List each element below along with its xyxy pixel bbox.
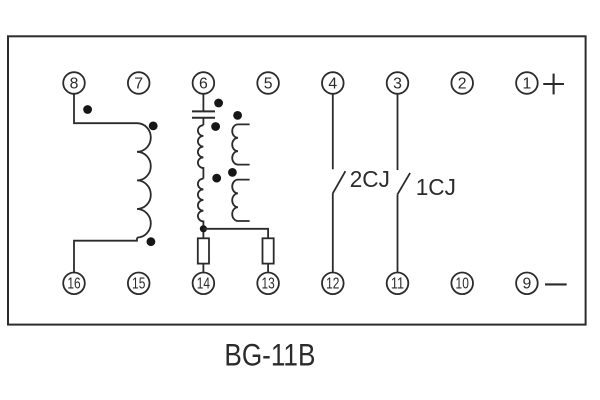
- switch 2CJ lower wire to terminal 12: [332, 193, 334, 272]
- svg-text:1CJ: 1CJ: [416, 174, 456, 200]
- svg-text:4: 4: [328, 75, 337, 92]
- svg-text:2CJ: 2CJ: [350, 166, 390, 192]
- secondary winding lower section with taps: [232, 180, 249, 221]
- svg-text:11: 11: [391, 276, 404, 293]
- secondary winding dot top: [233, 111, 242, 120]
- terminal 14: [193, 273, 215, 295]
- svg-text:10: 10: [456, 276, 469, 293]
- wire from terminal 6 to capacitor: [202, 94, 204, 112]
- terminal 13: [257, 273, 279, 295]
- primary winding dot middle: [212, 174, 221, 183]
- svg-text:16: 16: [67, 276, 80, 293]
- terminal 8: [63, 72, 85, 94]
- svg-text:12: 12: [326, 276, 339, 293]
- svg-text:BG-11B: BG-11B: [224, 337, 315, 373]
- wire junction to resistor 13: [203, 229, 268, 239]
- terminal 6: [193, 72, 215, 94]
- minus polarity mark: [545, 283, 567, 285]
- resistor R1 (above terminal 14): [198, 238, 209, 263]
- coil polarity dot top: [149, 122, 158, 131]
- terminal 4: [322, 72, 344, 94]
- secondary winding dot middle: [228, 168, 237, 177]
- wire resistor R1 to terminal 14: [202, 264, 204, 273]
- coil polarity dot bottom: [147, 237, 156, 246]
- switch 1CJ blade: [398, 173, 411, 194]
- switch 1CJ upper wire from terminal 3: [397, 94, 399, 170]
- secondary winding upper section with taps: [232, 124, 249, 164]
- svg-text:3: 3: [393, 75, 402, 92]
- svg-text:5: 5: [264, 75, 273, 92]
- switch 1CJ lower wire to terminal 11: [397, 194, 399, 272]
- svg-text:8: 8: [70, 75, 79, 92]
- terminal 16: [63, 273, 85, 295]
- switch 2CJ upper wire from terminal 4: [332, 94, 334, 169]
- svg-text:7: 7: [134, 75, 143, 92]
- resistor R2 (above terminal 13): [263, 238, 274, 263]
- terminal 1: [516, 72, 538, 94]
- wire from terminal 8 down and right: [74, 94, 137, 123]
- wire capacitor to primary winding: [202, 118, 204, 125]
- svg-text:15: 15: [132, 276, 145, 293]
- terminal 5: [257, 72, 279, 94]
- primary winding dot top: [211, 122, 220, 131]
- junction node dot: [200, 225, 207, 232]
- svg-text:2: 2: [458, 75, 467, 92]
- polarity dot on wire 8: [83, 105, 92, 114]
- wire resistor R2 to terminal 13: [267, 264, 269, 273]
- terminal 2: [451, 72, 473, 94]
- terminal 9: [516, 273, 538, 295]
- svg-text:14: 14: [197, 276, 210, 293]
- terminal 7: [128, 72, 150, 94]
- svg-text:13: 13: [261, 276, 274, 293]
- svg-text:6: 6: [199, 75, 208, 92]
- terminal 15: [128, 273, 150, 295]
- coil L (terminals 8-16): [137, 123, 151, 237]
- wire from coil bottom to terminal 16: [74, 238, 137, 273]
- plus polarity mark: [543, 74, 564, 95]
- primary winding upper half: [198, 125, 204, 178]
- capacitor C: [192, 111, 215, 117]
- polarity dot right of wire 6: [214, 99, 223, 108]
- terminal 12: [322, 273, 344, 295]
- terminal 3: [387, 72, 409, 94]
- enclosure frame: [8, 36, 586, 324]
- svg-text:1: 1: [523, 75, 532, 92]
- terminal 11: [387, 273, 409, 295]
- terminal 10: [451, 273, 473, 295]
- primary winding lower half: [198, 179, 203, 239]
- svg-text:9: 9: [523, 276, 532, 293]
- switch 2CJ blade: [333, 171, 346, 193]
